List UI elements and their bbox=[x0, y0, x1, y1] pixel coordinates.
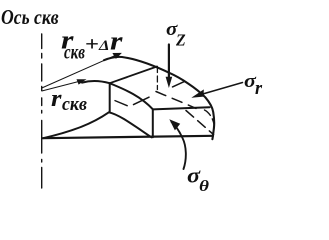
hidden diagonal on front face (dashed) bbox=[186, 111, 214, 135]
label: sigma theta bbox=[187, 163, 200, 188]
hidden vertical edge (dashed) bbox=[156, 67, 158, 90]
inner bottom arc (borehole wall, dome shaped) bbox=[43, 112, 151, 138]
outer top arc and right outer edge of element bbox=[104, 57, 214, 139]
front cut face top edge bbox=[153, 107, 210, 109]
arrow sigma_theta (curved, up-left) bbox=[172, 122, 186, 169]
bottom radial edge from axis apex to right bbox=[43, 136, 213, 138]
borehole axis (dash-dot vertical) bbox=[41, 34, 43, 188]
label: r_skv bbox=[51, 84, 61, 113]
hidden radial bottom edge (dashed) bbox=[134, 97, 150, 104]
label: axis title bbox=[1, 5, 59, 30]
label: sigma r bbox=[244, 71, 256, 92]
arrow r_skv+dr bbox=[42, 53, 120, 88]
hidden inner bottom arc (dashed) bbox=[115, 101, 127, 106]
inner-left vertical edge of element bbox=[109, 83, 111, 112]
arrow r_skv bbox=[42, 80, 84, 91]
front cut face left edge bbox=[152, 109, 154, 137]
arrow sigma_r (down-left) bbox=[201, 83, 243, 95]
label: r_skv + delta r bbox=[61, 25, 73, 56]
arrow sigma_Z (vertical down) bbox=[168, 45, 170, 80]
left radial top edge of element bbox=[110, 67, 157, 84]
inner top arc of ring element bbox=[82, 81, 153, 109]
label: sigma Z bbox=[166, 19, 177, 40]
hidden bottom outer arc (dashed) bbox=[156, 92, 196, 109]
